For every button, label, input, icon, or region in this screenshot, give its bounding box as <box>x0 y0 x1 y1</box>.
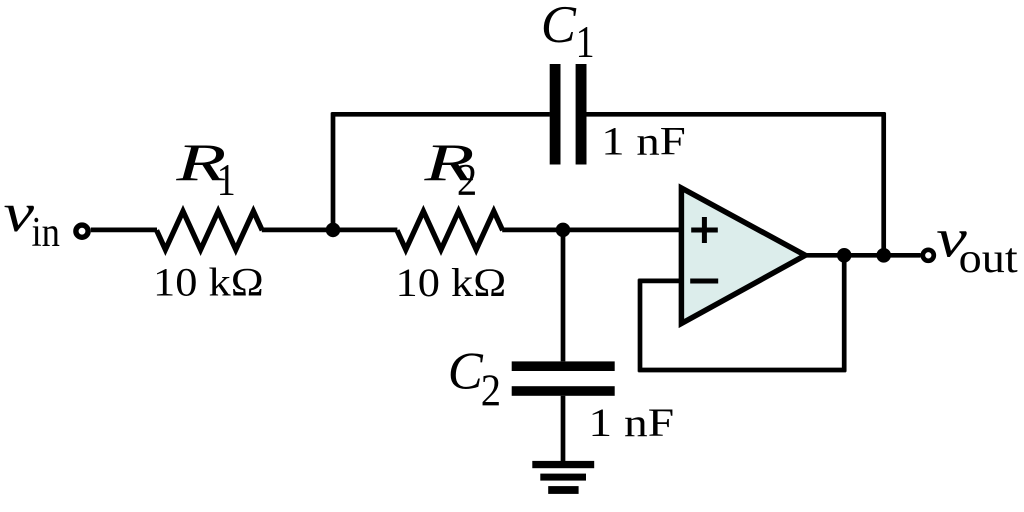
wire R2 to node B <box>502 228 564 233</box>
wire top rail left segment to C1 <box>331 112 550 117</box>
wire node A to R2 <box>333 228 397 233</box>
svg-text:C: C <box>448 343 484 401</box>
output node junction dot (C1 tap) <box>876 248 891 263</box>
feedback bottom wire <box>638 368 846 373</box>
op-amp U1 triangle <box>681 188 805 324</box>
resistor R1 <box>157 211 263 249</box>
wire node A up to top feedback rail <box>331 113 336 230</box>
feedback left vertical wire <box>638 279 643 372</box>
svg-text:10 kΩ: 10 kΩ <box>396 260 507 305</box>
node v_out label <box>936 207 1018 282</box>
svg-text:10 kΩ: 10 kΩ <box>153 260 264 305</box>
svg-text:v: v <box>4 182 35 243</box>
input terminal (open circle) <box>76 225 88 237</box>
wire node B to op-amp non-inverting input <box>563 228 681 233</box>
wire R1 to node A <box>262 228 335 233</box>
output terminal (open circle) <box>923 250 934 261</box>
node v_in label <box>4 182 61 256</box>
svg-text:1: 1 <box>576 17 595 67</box>
wire top-right corner down to output node <box>881 113 886 256</box>
wire input terminal to R1 <box>91 228 157 233</box>
svg-text:1 nF: 1 nF <box>601 119 685 164</box>
label R2 <box>423 134 477 205</box>
svg-text:2: 2 <box>457 155 477 205</box>
node A junction dot <box>326 223 341 238</box>
svg-text:in: in <box>32 210 61 256</box>
svg-text:out: out <box>959 236 1018 282</box>
capacitor C2 <box>512 361 615 395</box>
wire C1 to top-right corner <box>586 112 885 117</box>
label C1 <box>541 0 595 67</box>
label C2 <box>448 343 501 416</box>
node B junction dot <box>556 223 571 238</box>
wire inverting input to feedback corner <box>638 279 684 284</box>
output node junction dot (feedback tap) <box>837 248 852 263</box>
feedback right vertical wire up to output node <box>842 255 847 371</box>
capacitor C1 <box>550 64 587 165</box>
ground symbol <box>532 461 594 494</box>
svg-text:C: C <box>541 0 577 54</box>
svg-text:1 nF: 1 nF <box>588 400 674 445</box>
wire node B down to C2 <box>561 230 566 362</box>
svg-text:2: 2 <box>481 366 501 416</box>
wire op-amp output to output terminal <box>806 253 921 258</box>
op-amp minus input marking <box>690 279 718 284</box>
label R1 <box>175 134 236 205</box>
resistor R2 <box>397 211 503 249</box>
svg-text:1: 1 <box>217 155 236 205</box>
wire C2 to ground <box>561 396 566 464</box>
op-amp plus input marking <box>691 217 718 243</box>
